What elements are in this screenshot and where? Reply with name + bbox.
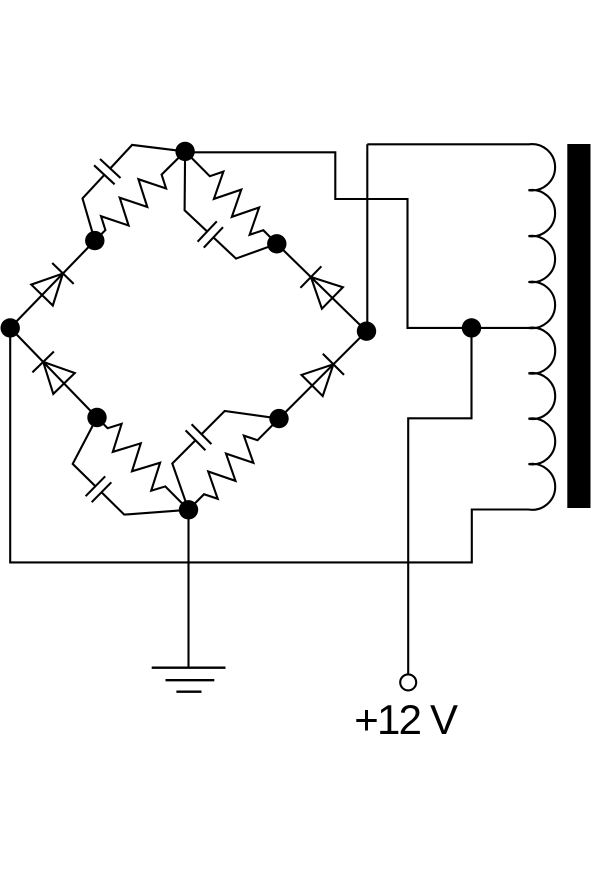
capacitor C1 (T to UL) xyxy=(110,145,185,169)
node R xyxy=(357,322,376,341)
wire center tap to +12V terminal xyxy=(408,328,471,675)
diode D1 (L to UL) xyxy=(10,241,95,328)
terminal +12 V xyxy=(400,674,416,690)
diode D4 (R to UR) xyxy=(277,244,367,331)
transformer core xyxy=(567,144,590,508)
wire bottom node B to ground xyxy=(187,510,189,668)
diode D2 (LL to L) xyxy=(10,328,97,418)
resistor R3 (LL to B) xyxy=(97,418,189,510)
diode D3 (LR to R) xyxy=(279,331,367,418)
node LR xyxy=(269,409,288,428)
capacitor C4 (B to LR) xyxy=(202,411,280,434)
resistor R4 (B to LR) xyxy=(189,419,280,510)
node UL xyxy=(85,231,104,250)
inductor transformer windings and bottom rail wire to node L xyxy=(10,144,555,562)
node T xyxy=(175,142,194,161)
svg-text:+12 V: +12 V xyxy=(354,696,458,743)
wire node R up to transformer top xyxy=(366,144,368,331)
resistor R1 (T to UL) xyxy=(95,151,185,240)
node center-tap xyxy=(462,318,481,337)
node L xyxy=(1,318,20,337)
wire T to transformer center tap xyxy=(185,152,528,328)
resistor R2 (T to UR) xyxy=(185,151,277,243)
capacitor C3 (LL to B) xyxy=(73,418,97,487)
node UR xyxy=(267,234,286,253)
capacitor C2 (T to UR) xyxy=(185,151,208,231)
node B xyxy=(179,500,198,519)
node LL xyxy=(87,408,106,427)
ground xyxy=(152,668,226,692)
